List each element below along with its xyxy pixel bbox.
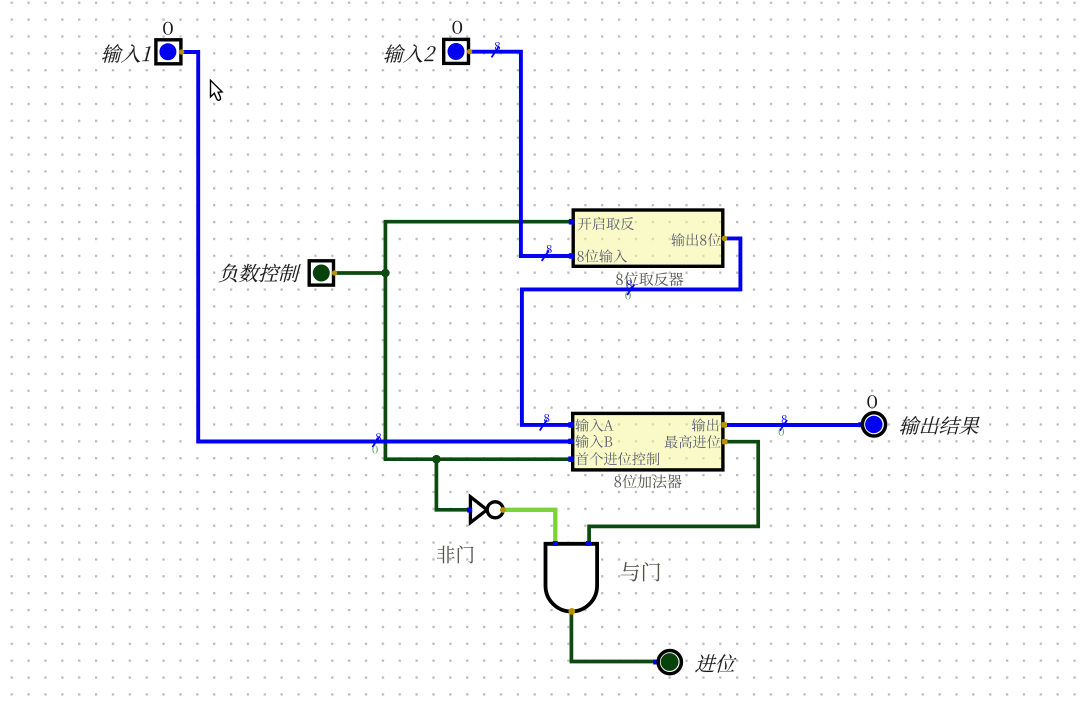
- port square: 输入A: [568, 422, 574, 428]
- bus width marker 8 with value 0 at 输入B: [372, 433, 381, 453]
- label: 最高进位: [665, 435, 721, 448]
- port square: 输入B: [568, 439, 574, 445]
- port square: 首个进位控制: [568, 456, 574, 462]
- junction: control net to NOT gate branch: [432, 455, 441, 464]
- port dot: AND output: [568, 608, 575, 615]
- port dot: 最高进位: [722, 439, 727, 444]
- label: 输出结果: [899, 416, 983, 435]
- wire: AND gate output to 进位 pin: [571, 612, 654, 662]
- bus width marker 8 with value 0 at adder 输出: [779, 415, 787, 436]
- mouse cursor: [211, 80, 223, 100]
- wire: 输入2 bus down to 8位输入: [470, 52, 570, 256]
- component box: 8位加法器: [573, 413, 723, 470]
- input pin 负数控制: [309, 261, 337, 285]
- wire: 最高进位 to AND gate right input: [589, 442, 758, 542]
- wire: adder 输出 to 输出结果 pin: [727, 423, 861, 427]
- label: 首个进位控制: [576, 452, 660, 465]
- label: 与门: [621, 562, 660, 581]
- wire: control net vertical with branches to 开启取反 and 首个进位控制: [385, 222, 569, 460]
- port dot: NOT output: [500, 507, 506, 513]
- output pin 进位: [653, 651, 681, 674]
- component box: 8位取反器: [573, 210, 723, 266]
- wire: 输入1 bus down and right to 输入B: [182, 52, 570, 442]
- port dot: 输出8位 output: [722, 236, 728, 242]
- value 0 of 输出结果: [867, 395, 877, 408]
- port square: AND right input: [586, 541, 591, 546]
- label: 开启取反: [578, 217, 634, 230]
- NOT gate 非门: [470, 497, 503, 523]
- label: 输出: [692, 418, 719, 431]
- AND gate 与门: [546, 544, 598, 612]
- label: 输出8位: [671, 233, 721, 246]
- label: 负数控制: [218, 264, 301, 283]
- wire: junction branch down to NOT gate input: [436, 457, 467, 509]
- value 0 of 输入1: [163, 22, 173, 35]
- caption: 8位取反器: [616, 272, 683, 286]
- bus width marker 8 with value 0 on inverter output return: [625, 280, 634, 299]
- caption: 8位加法器: [614, 475, 681, 489]
- label: 输入1: [101, 44, 153, 63]
- value 0 of 输入2: [452, 21, 462, 34]
- output pin 输出结果: [858, 413, 885, 436]
- input pin 输入2: [444, 39, 473, 63]
- input pin 输入1: [156, 40, 184, 64]
- label: 输入B: [575, 435, 612, 448]
- label: 进位: [695, 654, 739, 672]
- bus width marker 8 at 8位输入: [542, 245, 552, 261]
- port square: 开启取反 input: [569, 219, 575, 225]
- wire: 输出8位 around to 输入A: [522, 238, 741, 425]
- port dot: 输出: [722, 422, 727, 427]
- junction: control net at 负数控制: [381, 269, 390, 278]
- bus width marker 8 near 输入2: [492, 42, 501, 57]
- label: 8位输入: [577, 249, 626, 262]
- label: 输入2: [383, 44, 437, 63]
- bus width marker 8 at 输入A: [540, 414, 550, 430]
- wire: NOT gate output to AND gate left input (logic 1, light green): [503, 510, 555, 542]
- label: 输入A: [575, 418, 613, 431]
- port square: AND left input: [553, 541, 558, 546]
- wire: 负数控制 output to junction: [335, 271, 385, 275]
- port square: 8位输入 input: [569, 253, 575, 259]
- label: 非门: [437, 546, 474, 564]
- port square: NOT input: [467, 508, 472, 513]
